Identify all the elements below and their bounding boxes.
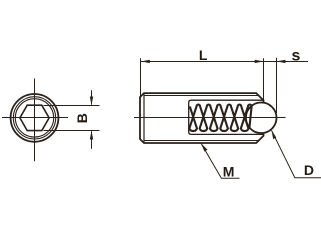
- svg-text:D: D: [304, 162, 314, 178]
- svg-text:L: L: [199, 47, 208, 63]
- svg-text:M: M: [223, 164, 235, 180]
- svg-text:B: B: [74, 113, 90, 123]
- svg-text:s: s: [292, 48, 301, 65]
